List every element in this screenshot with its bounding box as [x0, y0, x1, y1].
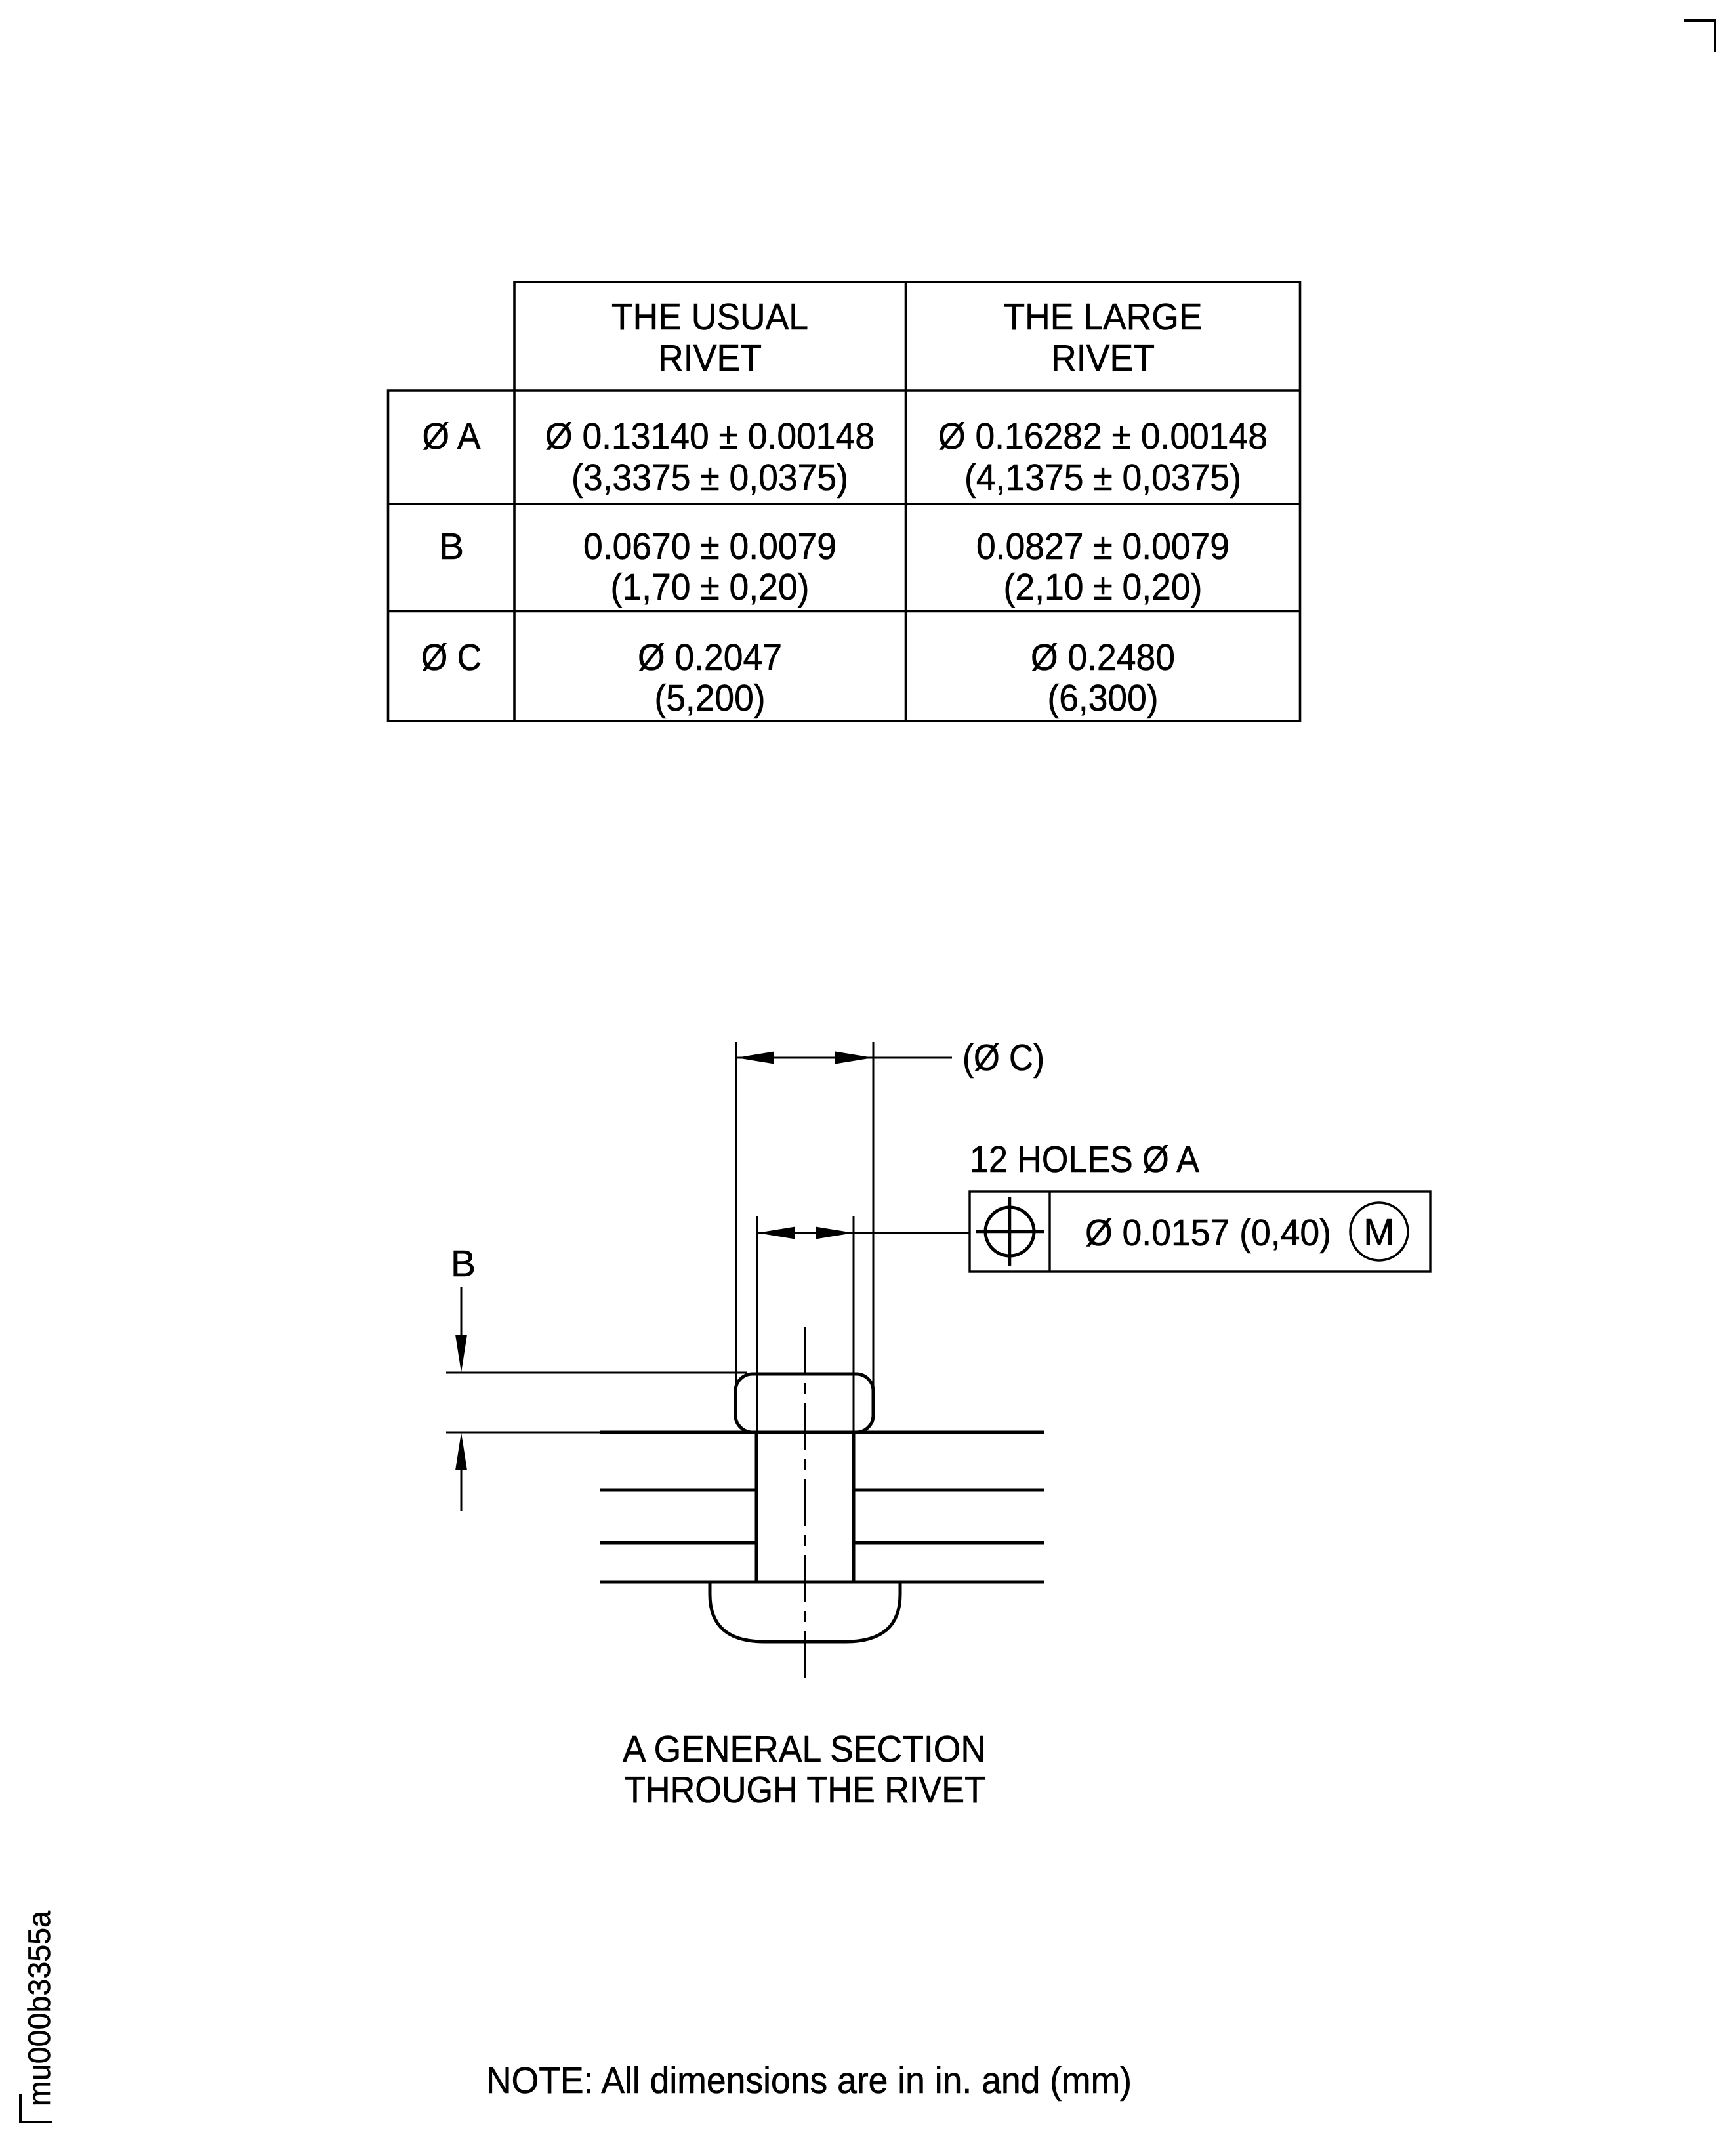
svg-text:RIVET: RIVET — [1051, 337, 1155, 379]
sheet line 2 left — [600, 1489, 756, 1492]
sheet line 1 — [600, 1431, 1044, 1434]
table left edge — [387, 390, 390, 722]
svg-text:(1,70 ± 0,20): (1,70 ± 0,20) — [611, 566, 810, 608]
svg-text:Ø 0.16282 ± 0.00148: Ø 0.16282 ± 0.00148 — [938, 415, 1268, 457]
svg-text:(2,10 ± 0,20): (2,10 ± 0,20) — [1004, 566, 1203, 608]
rivet shank left edge — [755, 1432, 758, 1582]
page corner mark bottom-left — [20, 2094, 52, 2122]
sheet line 2 right — [854, 1489, 1044, 1492]
svg-text:(3,3375 ± 0,0375): (3,3375 ± 0,0375) — [571, 457, 848, 499]
table grid — [387, 281, 1301, 722]
svg-text:NOTE: All dimensions are in in: NOTE: All dimensions are in in. and (mm) — [486, 2060, 1132, 2102]
dimension B lower arrowhead — [455, 1432, 467, 1470]
svg-text:Ø 0.13140 ± 0.00148: Ø 0.13140 ± 0.00148 — [545, 415, 875, 457]
dimension ØC extension line left — [735, 1042, 737, 1391]
material condition modifier circle M — [1350, 1203, 1408, 1260]
dimension B lower line — [461, 1457, 463, 1511]
dimension B reference line top of head — [446, 1372, 747, 1374]
svg-text:Ø 0.2480: Ø 0.2480 — [1031, 636, 1175, 678]
svg-text:(6,300): (6,300) — [1048, 677, 1159, 719]
rivet shank right edge — [852, 1432, 856, 1582]
dimension ØC dimension line — [736, 1057, 952, 1059]
svg-text:0.0827 ± 0.0079: 0.0827 ± 0.0079 — [976, 526, 1230, 568]
svg-text:Ø 0.0157 (0,40): Ø 0.0157 (0,40) — [1085, 1212, 1331, 1254]
dimension B upper arrowhead — [455, 1335, 467, 1373]
dimension ØC right arrowhead — [835, 1052, 873, 1064]
table vertical line 2 — [905, 281, 907, 722]
svg-text:(4,1375 ± 0,0375): (4,1375 ± 0,0375) — [964, 457, 1241, 499]
table line under row A — [387, 503, 1301, 505]
table bottom line — [387, 720, 1301, 722]
dimension ØA right arrowhead — [816, 1227, 854, 1239]
table line under row B — [387, 610, 1301, 613]
svg-text:RIVET: RIVET — [658, 337, 762, 379]
sheet line 4 — [600, 1581, 1044, 1584]
dimension ØA left arrowhead — [757, 1227, 795, 1239]
table right edge — [1299, 281, 1302, 722]
svg-text:THE LARGE: THE LARGE — [1004, 296, 1203, 338]
svg-text:THROUGH THE RIVET: THROUGH THE RIVET — [625, 1769, 985, 1811]
table line under header — [387, 389, 1301, 392]
feature control frame divider — [1048, 1192, 1050, 1272]
svg-text:12 HOLES Ø A: 12 HOLES Ø A — [970, 1138, 1199, 1180]
svg-text:A GENERAL SECTION: A GENERAL SECTION — [623, 1728, 986, 1770]
table header top line — [514, 281, 1302, 283]
dimension B upper line — [461, 1287, 463, 1352]
page corner mark top-right — [1684, 20, 1715, 52]
svg-text:THE USUAL: THE USUAL — [611, 296, 808, 338]
svg-text:(5,200): (5,200) — [655, 677, 766, 719]
svg-text:mu000b3355a: mu000b3355a — [22, 1910, 56, 2106]
svg-text:(Ø C): (Ø C) — [962, 1037, 1044, 1079]
svg-text:M: M — [1363, 1211, 1394, 1253]
rivet bucked tail — [710, 1583, 900, 1642]
svg-text:B: B — [451, 1243, 476, 1285]
dimension B reference line top of sheet — [446, 1432, 600, 1434]
svg-text:Ø 0.2047: Ø 0.2047 — [638, 636, 782, 678]
dimension ØC left arrowhead — [736, 1052, 774, 1064]
svg-text:0.0670 ± 0.0079: 0.0670 ± 0.0079 — [583, 526, 837, 568]
dimension ØA dimension line and leader to frame — [757, 1232, 970, 1234]
dimension ØC extension line right — [873, 1042, 875, 1391]
svg-text:Ø A: Ø A — [423, 415, 481, 457]
table vertical line 1 — [513, 281, 516, 722]
svg-text:B: B — [439, 526, 464, 568]
position tolerance symbol — [976, 1197, 1044, 1266]
sheet line 3 right — [854, 1541, 1044, 1545]
sheet line 3 left — [600, 1541, 756, 1545]
dimension ØA extension line left — [756, 1216, 758, 1432]
feature control frame box — [970, 1192, 1430, 1272]
table text — [421, 296, 1268, 719]
dimension ØA extension line right — [853, 1216, 855, 1432]
rivet centerline — [804, 1327, 806, 1688]
svg-text:Ø C: Ø C — [421, 636, 482, 678]
rivet head — [735, 1374, 873, 1432]
